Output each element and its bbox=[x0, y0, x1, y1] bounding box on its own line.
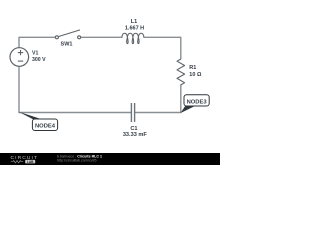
svg-text:L1: L1 bbox=[131, 19, 137, 25]
wire top-left (source top to SW1 left terminal) bbox=[19, 37, 55, 48]
footer text bbox=[57, 155, 102, 163]
wire bottom-left (C1 left plate to bottom-left corner) bbox=[19, 112, 131, 114]
svg-text:R1: R1 bbox=[189, 65, 196, 71]
svg-text:NODE4: NODE4 bbox=[35, 124, 56, 130]
wire top-right (L1 to right rail corner) bbox=[144, 37, 181, 59]
label V1 value bbox=[32, 51, 46, 63]
footer bar bbox=[0, 153, 220, 165]
label R1 value bbox=[189, 65, 202, 78]
node NODE4 flag bbox=[19, 112, 58, 131]
voltage source V1 bbox=[10, 48, 29, 67]
label C1 value bbox=[123, 126, 148, 138]
wire right-lower (R1 bottom to bottom-right corner) bbox=[180, 85, 182, 113]
svg-text:SW1: SW1 bbox=[61, 42, 73, 48]
node NODE3 flag bbox=[181, 95, 210, 113]
svg-text:33.33 mF: 33.33 mF bbox=[123, 132, 148, 138]
resistor R1 bbox=[177, 59, 185, 85]
svg-text:10 Ω: 10 Ω bbox=[189, 72, 202, 78]
inductor L1 bbox=[122, 33, 144, 43]
wire left (corner up to source bottom) bbox=[18, 66, 20, 112]
svg-text:1.667 H: 1.667 H bbox=[125, 26, 144, 32]
svg-text:LAB: LAB bbox=[27, 160, 34, 164]
capacitor C1 bbox=[131, 103, 134, 122]
footer CircuitLab logo bbox=[11, 155, 39, 164]
switch SW1 bbox=[55, 30, 80, 39]
label L1 value bbox=[125, 19, 144, 32]
svg-text:V1: V1 bbox=[32, 51, 38, 57]
svg-text:http://circuitlab.com/cv95: http://circuitlab.com/cv95 bbox=[57, 159, 97, 163]
wire top-mid (SW1 right terminal to L1) bbox=[81, 36, 122, 38]
svg-text:300 V: 300 V bbox=[32, 57, 46, 63]
svg-text:NODE3: NODE3 bbox=[187, 99, 208, 105]
wire bottom-right (corner to C1 right plate) bbox=[135, 112, 181, 114]
